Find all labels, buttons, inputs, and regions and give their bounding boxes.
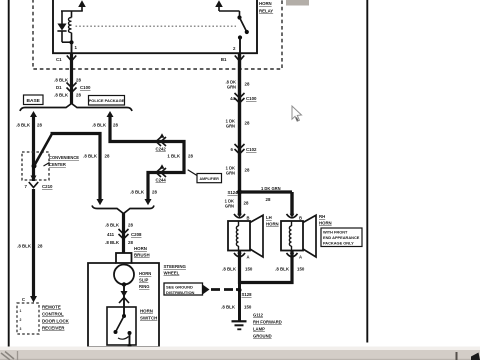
svg-text:B: B (247, 216, 250, 221)
see ground distribution callout (164, 283, 210, 295)
wire label .8 DK GRN 28 (226, 80, 250, 90)
status bar (0, 347, 480, 360)
wire label .8 BLK 28 (54, 78, 81, 83)
label STEERING WHEEL (164, 264, 187, 276)
svg-text:S128: S128 (242, 292, 253, 297)
wire to relay pin 1 (71, 42, 73, 53)
slip ring contact dot (122, 282, 126, 286)
svg-text:.8 BLK: .8 BLK (54, 93, 69, 98)
wire label .8 BLK 28 (16, 123, 42, 128)
svg-text:D1: D1 (56, 85, 62, 90)
faint gray label top right (286, 0, 309, 6)
svg-text:A: A (247, 255, 250, 260)
label CONVENIENCE CENTER (44, 155, 80, 167)
svg-text:.8 BLK: .8 BLK (83, 154, 98, 159)
svg-text:28: 28 (76, 93, 81, 98)
svg-text:C1: C1 (56, 57, 62, 62)
svg-text:AMPLIFIER: AMPLIFIER (200, 177, 220, 181)
wire label 1 DK GRN 28 (226, 119, 250, 129)
convenience center box (22, 152, 49, 181)
connector C242 (156, 133, 167, 151)
wire label .8 BLK 28 (83, 154, 110, 159)
RH branch vertical (290, 192, 293, 216)
arrow down right (145, 199, 152, 205)
wire label 1 DK GRN 28 (225, 199, 249, 209)
wire label 1 DK GRN 28 (226, 166, 250, 176)
label HORN BRUSH (134, 246, 150, 258)
wire label 1 BLK 28 (167, 154, 193, 159)
svg-text:.8 BLK: .8 BLK (105, 240, 120, 245)
label RH HORN (319, 214, 332, 226)
police branch wire arrow (107, 111, 114, 117)
branch wire horizontal/vertical (51, 134, 101, 200)
mouse cursor (292, 106, 302, 121)
wire label .8 BLK 150 (222, 267, 253, 272)
svg-text:CONVENIENCE: CONVENIENCE (49, 155, 79, 160)
label HORN SWITCH (140, 309, 157, 321)
svg-text:REMOTE: REMOTE (42, 305, 61, 310)
merge brace above steering column (92, 206, 154, 214)
svg-text:.8 BLK: .8 BLK (275, 267, 290, 272)
svg-text:HORN: HORN (319, 221, 332, 226)
wire label .8 BLK 28 (105, 223, 133, 228)
svg-text:HORN: HORN (139, 271, 151, 276)
svg-text:150: 150 (245, 267, 253, 272)
svg-text:28: 28 (245, 121, 250, 126)
wire slip ring to switch (123, 285, 125, 317)
ground join wire (238, 281, 294, 284)
svg-text:RELAY: RELAY (259, 9, 273, 14)
connector B1 (221, 56, 244, 63)
label REMOTE CONTROL DOOR LOCK RECEIVER (42, 305, 70, 331)
steering column wire (122, 213, 125, 253)
RH horn ground wire (290, 251, 293, 285)
svg-text:28: 28 (188, 154, 193, 159)
horn brush (116, 253, 132, 263)
svg-text:28: 28 (113, 123, 118, 128)
wire label .8 BLK 28 (54, 93, 81, 98)
LH horn ground wire (238, 251, 241, 285)
inline connector pair (119, 291, 129, 303)
svg-text:RING: RING (139, 284, 149, 289)
wire relay pin1 down (70, 53, 73, 105)
svg-text:1: 1 (20, 309, 22, 313)
dashed enclosure (convenience center) (33, 0, 282, 69)
svg-text:RECEIVER: RECEIVER (42, 326, 65, 331)
svg-text:.8 BLK: .8 BLK (16, 123, 31, 128)
svg-text:C244: C244 (156, 178, 167, 183)
svg-text:3: 3 (20, 327, 22, 331)
svg-text:LAMP: LAMP (253, 327, 265, 332)
wire to fuse (arrow up, switch side) (215, 0, 239, 11)
svg-text:WITH FRONT: WITH FRONT (323, 230, 348, 235)
with front end appearance package callout (321, 228, 362, 247)
LH horn pin B (234, 214, 250, 221)
svg-text:150: 150 (244, 305, 252, 310)
svg-text:28: 28 (76, 78, 81, 83)
svg-text:28: 28 (38, 244, 43, 249)
svg-text:.8 BLK: .8 BLK (92, 123, 107, 128)
page border left (8, 0, 10, 353)
svg-text:SWITCH: SWITCH (140, 316, 157, 321)
svg-text:28: 28 (105, 154, 110, 159)
wire label .8 BLK 28 (17, 244, 43, 249)
connector 7 C210 (25, 182, 54, 189)
svg-text:28: 28 (245, 168, 250, 173)
svg-text:B: B (299, 216, 302, 221)
svg-text:C102: C102 (246, 147, 257, 152)
ground G112 symbol (232, 321, 247, 329)
svg-text:GRN: GRN (227, 84, 236, 89)
svg-text:.8 BLK: .8 BLK (222, 267, 237, 272)
svg-text:C100: C100 (80, 85, 91, 90)
svg-text:BASE: BASE (27, 98, 41, 104)
LH horn pin A (234, 253, 250, 260)
svg-text:GRN: GRN (226, 170, 235, 175)
LH horn M1 (228, 215, 263, 257)
svg-text:28: 28 (244, 201, 249, 206)
arrow down left (97, 199, 104, 205)
svg-text:2: 2 (20, 318, 22, 322)
svg-text:28: 28 (128, 240, 133, 245)
BASE option label (24, 95, 44, 105)
switch ground wire (125, 333, 135, 353)
svg-text:DISTRIBUTION: DISTRIBUTION (166, 290, 195, 295)
steering wheel box (88, 263, 159, 347)
svg-text:BRUSH: BRUSH (134, 253, 150, 258)
wire to receiver (32, 189, 35, 297)
svg-text:SEE GROUND: SEE GROUND (166, 285, 193, 290)
connector 411 C208 (107, 229, 142, 239)
svg-text:28: 28 (37, 123, 42, 128)
status bar left grip (1, 351, 18, 360)
dashed coil-to-contacts link (76, 25, 237, 27)
horn switch box (107, 307, 136, 345)
splice S128 (238, 288, 253, 297)
svg-text:C208: C208 (131, 232, 142, 237)
svg-text:1 DK GRN: 1 DK GRN (261, 186, 281, 191)
connector C244 (156, 164, 167, 182)
connector D1 C100 (56, 83, 91, 93)
svg-text:WHEEL: WHEEL (164, 271, 180, 276)
svg-text:C210: C210 (42, 184, 53, 189)
svg-text:.8 BLK: .8 BLK (17, 244, 32, 249)
svg-text:CONTROL: CONTROL (42, 312, 64, 317)
connector 44 C100 (230, 93, 257, 103)
horn switch contacts (114, 314, 132, 339)
wire to fuse (arrow up, coil side) (61, 0, 86, 11)
relay contacts SW1 (237, 11, 249, 54)
wire label .8 BLK 28 (130, 190, 157, 195)
svg-text:S124: S124 (227, 190, 238, 195)
base branch wire (32, 116, 35, 181)
svg-text:GRN: GRN (226, 123, 235, 128)
POLICE PACKAGE option label (89, 96, 125, 106)
label HORN RELAY (259, 1, 273, 14)
svg-text:150: 150 (297, 267, 305, 272)
svg-text:G112: G112 (253, 313, 264, 318)
relay coil L1 (69, 11, 72, 42)
svg-text:28: 28 (152, 190, 157, 195)
ground distribution dashed wire (211, 288, 239, 291)
svg-text:RH: RH (319, 214, 325, 219)
svg-text:SLIP: SLIP (139, 278, 149, 283)
svg-text:STEERING: STEERING (164, 264, 187, 269)
svg-text:CENTER: CENTER (49, 162, 66, 167)
svg-text:POLICE PACKAGE: POLICE PACKAGE (89, 98, 125, 103)
connector C1 (56, 56, 76, 63)
svg-text:.8 BLK: .8 BLK (54, 78, 69, 83)
RH horn M2 (281, 215, 316, 257)
svg-text:GROUND: GROUND (253, 334, 272, 339)
main horn feed wire (238, 53, 241, 216)
label LH HORN (266, 215, 279, 227)
connector 6 C102 (231, 144, 258, 154)
remote control door lock receiver box (17, 303, 39, 334)
branch labels 1 DK GRN 28 (261, 186, 281, 202)
RH horn pin B (287, 214, 303, 221)
label G112 RH FORWARD LAMP GROUND (253, 313, 282, 339)
svg-text:C242: C242 (156, 147, 167, 152)
svg-text:28: 28 (245, 82, 250, 87)
diode CR1 (57, 11, 71, 42)
status bar right separator (456, 352, 458, 360)
svg-text:28: 28 (266, 197, 271, 202)
svg-text:.8 BLK: .8 BLK (130, 190, 145, 195)
svg-text:HORN: HORN (259, 1, 272, 6)
amplifier callout (188, 170, 222, 183)
branch wire to RH horn (240, 190, 293, 193)
svg-text:28: 28 (128, 223, 133, 228)
svg-text:.8 BLK: .8 BLK (105, 223, 120, 228)
svg-text:HORN: HORN (140, 309, 153, 314)
wire label .8 BLK 150 (275, 267, 305, 272)
svg-text:HORN: HORN (134, 246, 147, 251)
label HORN SLIP RING (139, 271, 151, 289)
svg-text:END APPEARANCE: END APPEARANCE (323, 235, 360, 240)
status bar right corner arrow (471, 353, 480, 360)
horn relay box U1 (53, 0, 257, 53)
page border right (366, 0, 368, 343)
svg-text:B1: B1 (221, 57, 227, 62)
svg-text:C100: C100 (246, 96, 257, 101)
police branch wire (110, 116, 184, 200)
svg-text:1 BLK: 1 BLK (167, 154, 181, 159)
options split brace (20, 104, 132, 112)
svg-text:PACKAGE ONLY: PACKAGE ONLY (323, 241, 354, 246)
RH horn pin A (287, 253, 303, 260)
svg-text:DOOR LOCK: DOOR LOCK (42, 319, 70, 324)
branch wire to steering column (diagonal) (34, 135, 52, 166)
svg-text:411: 411 (107, 232, 115, 237)
wire label .8 BLK 28 (105, 240, 133, 245)
horn slip ring (114, 265, 134, 285)
svg-text:LH: LH (266, 215, 272, 220)
splice S124 (227, 190, 242, 196)
ground drop wire (238, 283, 241, 321)
junction dot coil/diode (69, 40, 73, 44)
svg-text:GRN: GRN (225, 203, 234, 208)
svg-text:RH FORWARD: RH FORWARD (253, 320, 282, 325)
wire label .8 BLK 150 (221, 305, 252, 310)
svg-text:A: A (299, 255, 302, 260)
arrow into receiver, pin C (22, 296, 37, 303)
svg-text:HORN: HORN (266, 222, 279, 227)
svg-text:.8 BLK: .8 BLK (221, 305, 236, 310)
wire label .8 BLK 28 (92, 123, 118, 128)
base branch wire arrow (30, 111, 37, 117)
